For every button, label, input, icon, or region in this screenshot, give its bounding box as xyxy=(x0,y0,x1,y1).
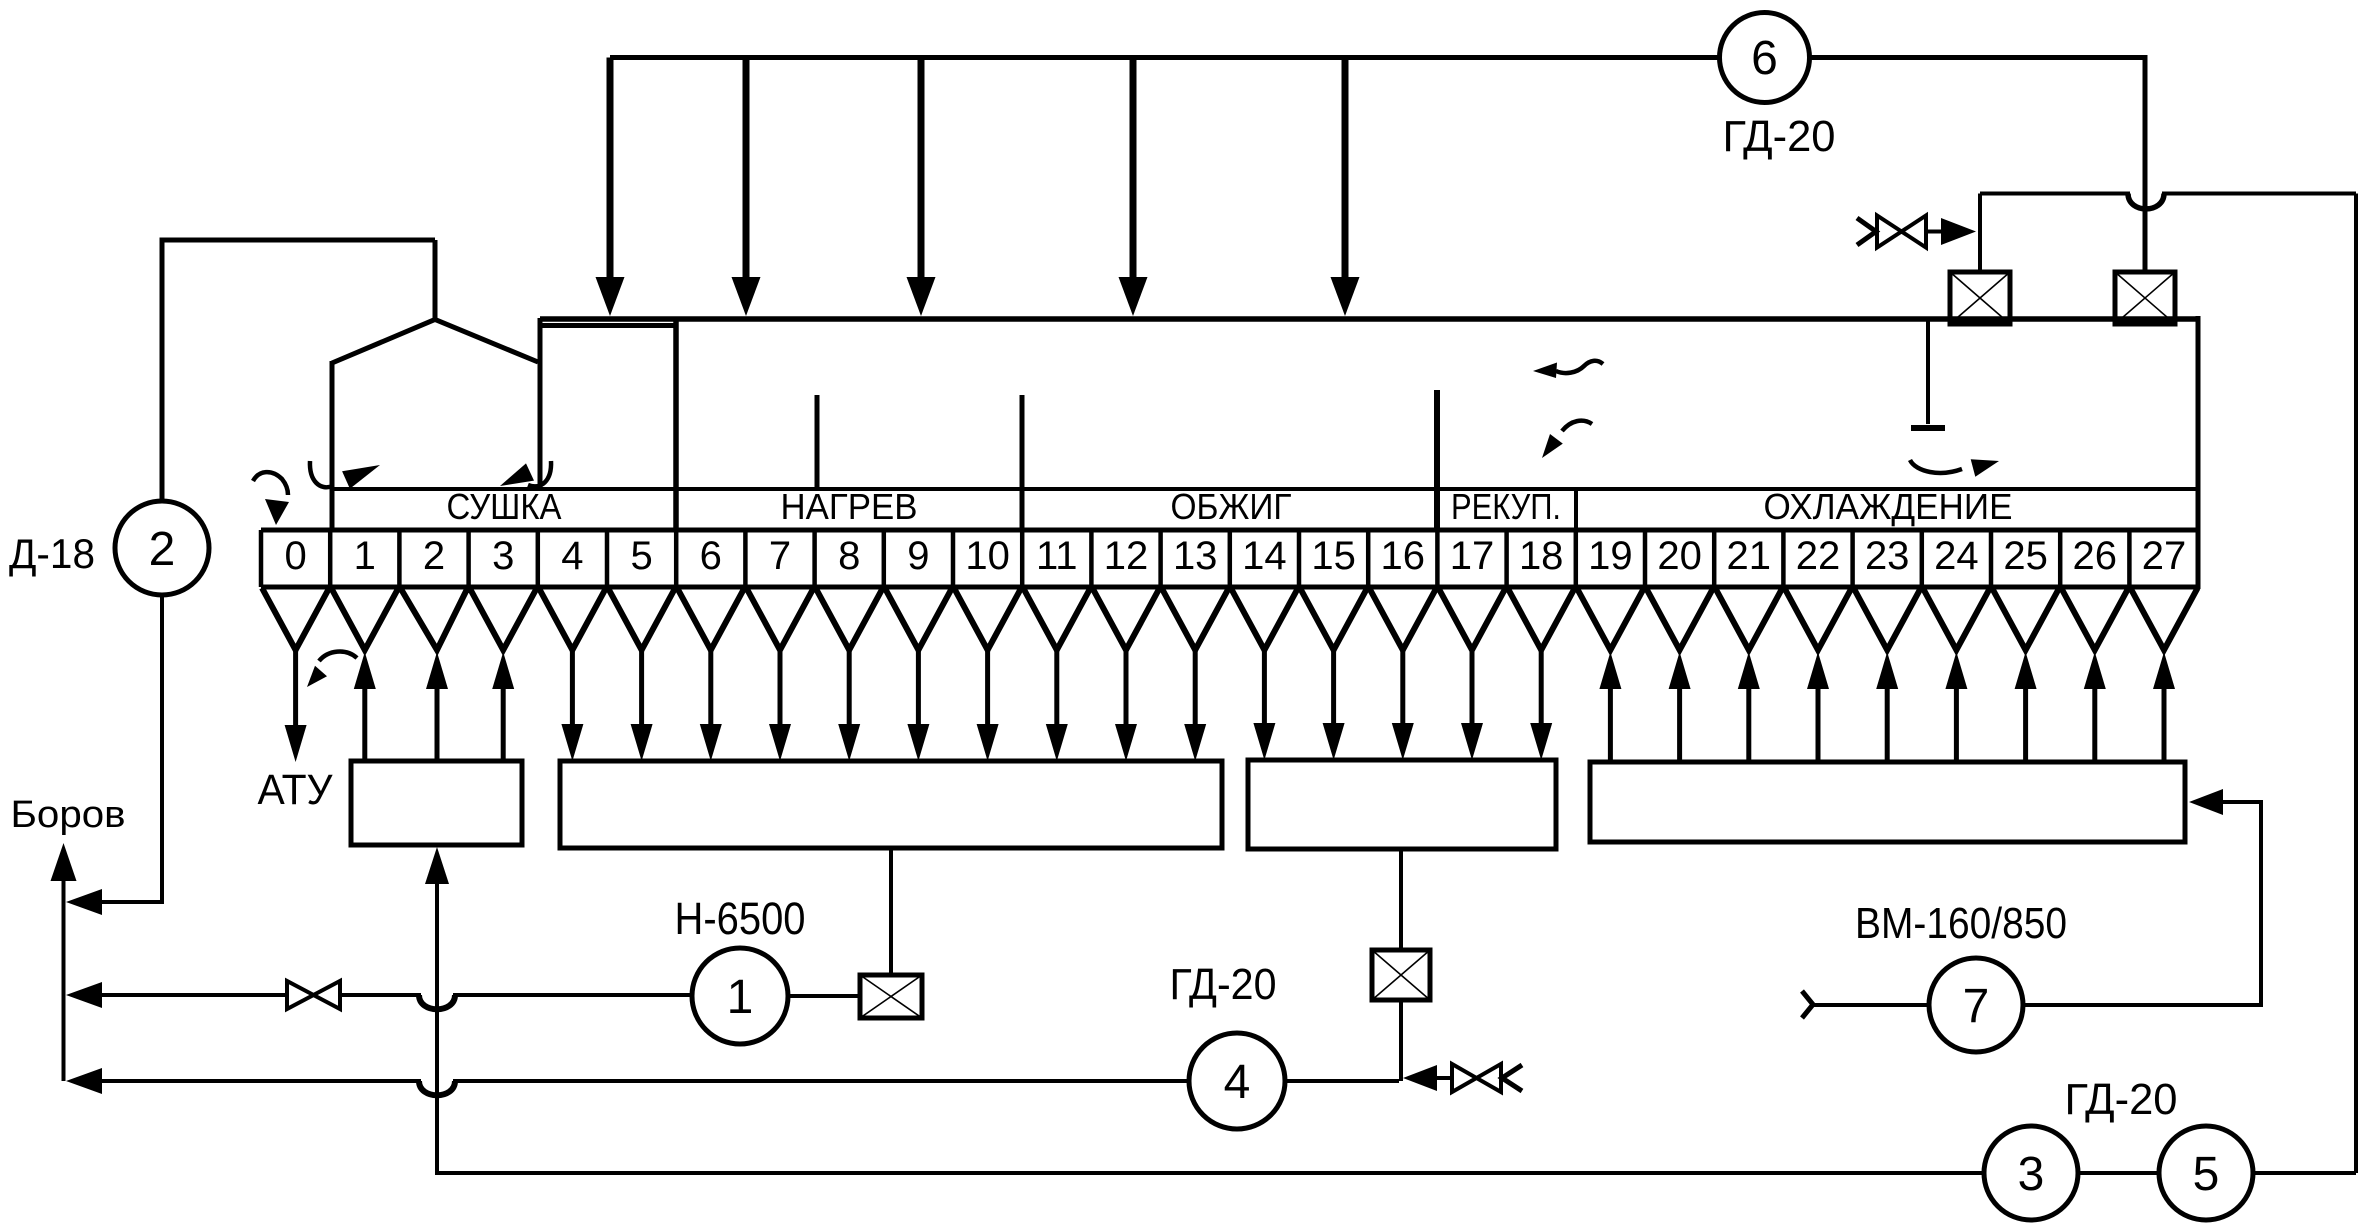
cell 20 cooling air up arrow xyxy=(1669,652,1691,762)
arrow into cooling box from fan 7 xyxy=(2189,789,2223,815)
svg-text:27: 27 xyxy=(2142,534,2187,578)
dryer roof stack xyxy=(433,240,438,322)
svg-text:23: 23 xyxy=(1865,534,1910,578)
svg-text:26: 26 xyxy=(2073,534,2118,578)
wire: fan 1 to damper xyxy=(788,994,860,998)
svg-text:6: 6 xyxy=(1751,32,1778,85)
svg-text:НАГРЕВ: НАГРЕВ xyxy=(781,486,918,527)
cell 23 cooling air up arrow xyxy=(1876,652,1898,762)
curved arrow: flow at cell-4 wall xyxy=(500,461,551,486)
air inlet chevron (fan 4 valve) xyxy=(1502,1065,1522,1091)
curved arrow: flow under cooling damper xyxy=(1910,459,1999,476)
wire: fan 4 suction line with hop xyxy=(100,1079,1188,1083)
curved arrow: flow at dryer left wall xyxy=(310,461,380,489)
svg-text:ГД-20: ГД-20 xyxy=(1170,960,1277,1009)
kiln right wall xyxy=(2196,316,2201,589)
burner lance at cell 8 xyxy=(815,395,820,491)
valve (top right bleed-in) xyxy=(1877,216,1926,248)
svg-text:20: 20 xyxy=(1657,534,1702,578)
svg-text:СУШКА: СУШКА xyxy=(447,486,562,527)
wire: header end drop to roof damper xyxy=(2143,55,2148,272)
svg-text:РЕКУП.: РЕКУП. xyxy=(1451,486,1561,527)
dryer left wall xyxy=(330,361,335,528)
dryer roof (gable) xyxy=(332,320,538,364)
cell 10 down arrow into collector xyxy=(977,650,999,761)
divider between РЕКУП and ОХЛАЖДЕНИЕ xyxy=(1574,489,1578,530)
hop arc over down pipe (fan 4 line) xyxy=(419,1081,455,1095)
svg-text:17: 17 xyxy=(1450,534,1495,578)
svg-text:16: 16 xyxy=(1381,534,1426,578)
wire: fan 2 discharge to flue xyxy=(102,595,162,902)
svg-text:1: 1 xyxy=(354,534,376,578)
svg-text:10: 10 xyxy=(965,534,1010,578)
fan 2 (Д-18) xyxy=(115,501,209,595)
fan 6 (smoke exhauster ГД-20) xyxy=(1720,13,1810,103)
cells bottom line xyxy=(261,585,2198,590)
svg-text:11: 11 xyxy=(1036,534,1078,578)
wire: valve to riser xyxy=(1926,230,1941,234)
svg-text:6: 6 xyxy=(700,534,722,578)
heating/firing exhaust collector box xyxy=(560,761,1222,848)
arrow into flue from fan 1 line xyxy=(66,982,102,1008)
burner lance / wall between НАГРЕВ and ОБЖИГ xyxy=(1020,395,1025,531)
fan 7 (ВМ-160/850 blower) xyxy=(1929,958,2023,1052)
roof damper box (right) xyxy=(2115,272,2175,324)
svg-text:12: 12 xyxy=(1104,534,1149,578)
cell 7 down arrow into collector xyxy=(769,650,791,761)
wire: riser from collector to damper xyxy=(889,848,893,975)
wire: valve stub xyxy=(1437,1076,1452,1080)
valve on fan 1 line xyxy=(287,981,340,1009)
wire: fan 1 line with hop over down pipe xyxy=(340,993,692,997)
wire: down pipe from АТУ to bottom line with up arrow xyxy=(425,847,449,1175)
svg-text:2: 2 xyxy=(149,523,176,576)
wire: recirculation line (top right) with hop over drop xyxy=(1980,192,2356,196)
arrow into flue from fan 2 xyxy=(66,889,102,915)
svg-text:15: 15 xyxy=(1311,534,1356,578)
svg-text:14: 14 xyxy=(1242,534,1287,578)
svg-text:ОБЖИГ: ОБЖИГ xyxy=(1171,486,1292,527)
wire: exhaust header right segment xyxy=(1812,55,2146,60)
svg-text:9: 9 xyxy=(907,534,929,578)
cell 13 down arrow into collector xyxy=(1184,650,1206,761)
svg-text:Д-18: Д-18 xyxy=(9,530,95,577)
svg-text:8: 8 xyxy=(838,534,860,578)
svg-text:22: 22 xyxy=(1796,534,1841,578)
svg-text:Боров: Боров xyxy=(11,794,126,836)
svg-text:13: 13 xyxy=(1173,534,1218,578)
cell 3 up arrow from АТУ xyxy=(492,652,514,761)
kiln ceiling double line over drying zone xyxy=(540,323,676,328)
hanging damper in cooling zone xyxy=(1911,321,1945,428)
fan 4 (ГД-20) xyxy=(1189,1033,1285,1129)
fan 1 (Н-6500) xyxy=(692,948,788,1044)
svg-text:ВМ-160/850: ВМ-160/850 xyxy=(1855,899,2067,948)
curved arrow: under cell 0/1 hoppers xyxy=(307,652,357,687)
cooling air distribution box xyxy=(1590,762,2185,842)
arrow into flue from fan 4 line xyxy=(66,1068,102,1094)
svg-text:3: 3 xyxy=(2018,1148,2045,1201)
air inlet chevron (top right valve) xyxy=(1857,218,1876,245)
svg-text:Н-6500: Н-6500 xyxy=(675,893,806,944)
cell 27 cooling air up arrow xyxy=(2153,652,2175,762)
cell 5 down arrow into collector xyxy=(631,650,653,761)
svg-text:0: 0 xyxy=(284,534,306,578)
wire: fan 7 suction xyxy=(1813,1003,1929,1007)
recuperation collector box xyxy=(1248,760,1556,849)
svg-text:5: 5 xyxy=(630,534,652,578)
svg-text:4: 4 xyxy=(1224,1056,1251,1109)
cell 4 down arrow into collector xyxy=(561,650,583,761)
cell 24 cooling air up arrow xyxy=(1945,652,1967,762)
cell dividers 0..27 xyxy=(261,530,2129,587)
curved arrow: gas into cell 0 xyxy=(253,472,289,525)
svg-text:1: 1 xyxy=(727,971,754,1024)
cell hoppers (funnels) xyxy=(262,588,2198,650)
kiln ceiling xyxy=(540,316,2198,322)
flue (Боров) riser with up arrow xyxy=(51,843,77,1081)
cell 9 down arrow into collector xyxy=(907,650,929,761)
wire: riser from recup collector xyxy=(1399,849,1403,950)
hop arc over header drop (recirculation line) xyxy=(2128,194,2164,209)
damper box on recup downcomer xyxy=(1372,950,1430,1000)
svg-text:5: 5 xyxy=(2193,1148,2220,1201)
cell 6 down arrow into collector xyxy=(700,650,722,761)
wire: riser from left roof damper xyxy=(1978,194,1982,273)
wire: damper to junction xyxy=(1399,1000,1403,1081)
cell 16 down arrow into recup collector xyxy=(1392,650,1414,760)
svg-text:21: 21 xyxy=(1727,534,1772,578)
wire: fan 4 to riser junction xyxy=(1285,1079,1399,1083)
svg-text:7: 7 xyxy=(1963,980,1990,1033)
cell 22 cooling air up arrow xyxy=(1807,652,1829,762)
exhaust drop arrow 4 into kiln ceiling xyxy=(1119,58,1148,317)
exhaust drop arrow 1 into kiln ceiling xyxy=(596,58,625,317)
svg-text:4: 4 xyxy=(561,534,583,578)
fan 3 (ГД-20) xyxy=(1984,1126,2078,1220)
svg-text:18: 18 xyxy=(1519,534,1564,578)
air inlet chevron (fan 7 suction) xyxy=(1802,991,1813,1018)
exhaust drop arrow 5 into kiln ceiling xyxy=(1331,58,1360,317)
wire: right return riser (to fans 3/5 line) xyxy=(2354,194,2358,1174)
exhaust drop arrow 3 into kiln ceiling xyxy=(907,58,936,317)
svg-text:ОХЛАЖДЕНИЕ: ОХЛАЖДЕНИЕ xyxy=(1764,486,2013,527)
svg-text:24: 24 xyxy=(1934,534,1979,578)
fan 5 (ГД-20) xyxy=(2159,1126,2253,1220)
cell 1 up arrow from АТУ xyxy=(354,652,376,761)
wire: fan 1 suction line left part xyxy=(100,993,287,997)
cell 25 cooling air up arrow xyxy=(2015,652,2037,762)
cell 21 cooling air up arrow xyxy=(1738,652,1760,762)
cell 14 down arrow into recup collector xyxy=(1253,650,1275,760)
exhaust drop arrow 2 into kiln ceiling xyxy=(732,58,761,317)
svg-text:25: 25 xyxy=(2003,534,2048,578)
cell 0 exhaust down arrow xyxy=(285,650,307,762)
damper box on fan 1 line xyxy=(860,975,922,1018)
cell 12 down arrow into collector xyxy=(1115,650,1137,761)
svg-text:2: 2 xyxy=(423,534,445,578)
АТУ unit box xyxy=(351,761,522,845)
cell 18 down arrow into recup collector xyxy=(1530,650,1552,760)
wire: exhaust header left segment xyxy=(610,55,1718,60)
cell 19 cooling air up arrow xyxy=(1599,652,1621,762)
kiln wall at cell 4 xyxy=(538,318,543,491)
flow arrow into riser (top right) xyxy=(1941,218,1976,245)
svg-text:ГД-20: ГД-20 xyxy=(2065,1075,2178,1124)
flow arrow into junction (fan 4 valve) xyxy=(1403,1065,1437,1091)
valve on air bleed (fan 4 line) xyxy=(1452,1064,1501,1092)
cell 26 cooling air up arrow xyxy=(2084,652,2106,762)
cell 17 down arrow into recup collector xyxy=(1461,650,1483,760)
curved arrow: recirculation upper (РЕКУП) xyxy=(1533,361,1603,378)
cell 8 down arrow into collector xyxy=(838,650,860,761)
hop arc over down pipe (fan 1 line) xyxy=(419,995,455,1009)
wall between ОБЖИГ and РЕКУП xyxy=(1434,390,1440,531)
cell 11 down arrow into collector xyxy=(1046,650,1068,761)
cells top line xyxy=(261,528,2198,533)
cell position numbers 0-27 xyxy=(284,534,2186,578)
cell 15 down arrow into recup collector xyxy=(1323,650,1345,760)
wire: bottom gas line to fans 3/5 xyxy=(437,1171,1984,1175)
zone band top line xyxy=(332,487,2198,491)
svg-text:7: 7 xyxy=(769,534,791,578)
duct from dryer stack to fan 2 xyxy=(162,240,435,501)
curved arrow: recirculation lower (РЕКУП) xyxy=(1542,421,1592,458)
wire: fan 5 to right riser xyxy=(2253,1171,2356,1175)
svg-text:ГД-20: ГД-20 xyxy=(1723,112,1836,161)
svg-text:19: 19 xyxy=(1588,534,1633,578)
svg-text:3: 3 xyxy=(492,534,514,578)
svg-text:АТУ: АТУ xyxy=(258,766,334,814)
wall between СУШКА and НАГРЕВ xyxy=(673,319,679,531)
cell 2 up arrow from АТУ xyxy=(426,652,448,761)
wire: between fans 3 and 5 xyxy=(2078,1171,2159,1175)
roof damper box (left) xyxy=(1950,272,2010,324)
wire: fan 7 discharge xyxy=(2023,802,2261,1005)
